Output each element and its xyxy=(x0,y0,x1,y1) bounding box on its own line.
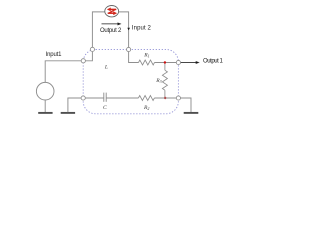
wire ground stub to bottom rail xyxy=(68,98,81,112)
current arrow Output 2 xyxy=(102,23,122,26)
ground (source) xyxy=(38,112,52,114)
port node P6 xyxy=(176,96,180,100)
ground (bottom rail left) xyxy=(61,112,75,114)
Input 2 marker xyxy=(127,28,130,31)
port node P5 xyxy=(176,60,180,64)
ammeter U1 xyxy=(105,6,119,17)
wire internal L-link xyxy=(85,52,92,61)
resistor R1 xyxy=(139,60,155,65)
svg-text:L: L xyxy=(104,65,108,71)
port node P2 xyxy=(127,47,131,51)
port node P1 xyxy=(90,47,94,51)
resistor R3 xyxy=(162,63,167,99)
wire top path from port2 xyxy=(129,52,139,63)
svg-text:R1: R1 xyxy=(143,52,149,58)
wire source to ground xyxy=(44,100,46,112)
svg-text:Input 2: Input 2 xyxy=(132,25,152,31)
port node P3 xyxy=(81,59,85,63)
wire input1 xyxy=(45,61,81,83)
ground (right) xyxy=(184,112,199,114)
port node P4 xyxy=(81,96,85,100)
resistor R2 xyxy=(138,96,154,101)
arrow Output 1 xyxy=(181,61,200,64)
junction node bottom xyxy=(164,97,166,99)
svg-text:Input1: Input1 xyxy=(46,52,63,58)
wire bottom rail left of C xyxy=(85,97,104,99)
junction node top xyxy=(164,61,166,63)
svg-text:Output 2: Output 2 xyxy=(100,28,122,34)
wire R2 to port6 xyxy=(154,97,176,99)
svg-text:R3: R3 xyxy=(155,78,161,84)
wire C to R2 xyxy=(106,97,138,99)
wire output rail to ground xyxy=(181,98,192,112)
svg-text:Output 1: Output 1 xyxy=(203,58,224,64)
source V1 xyxy=(36,82,54,100)
dashed network box xyxy=(83,49,178,113)
ammeter red arrows xyxy=(107,8,117,15)
capacitor C xyxy=(104,93,106,102)
wire R1 to port5 xyxy=(155,62,177,64)
svg-text:R2: R2 xyxy=(143,105,149,111)
svg-text:C: C xyxy=(103,105,107,111)
wire ammeter loop xyxy=(92,12,128,48)
